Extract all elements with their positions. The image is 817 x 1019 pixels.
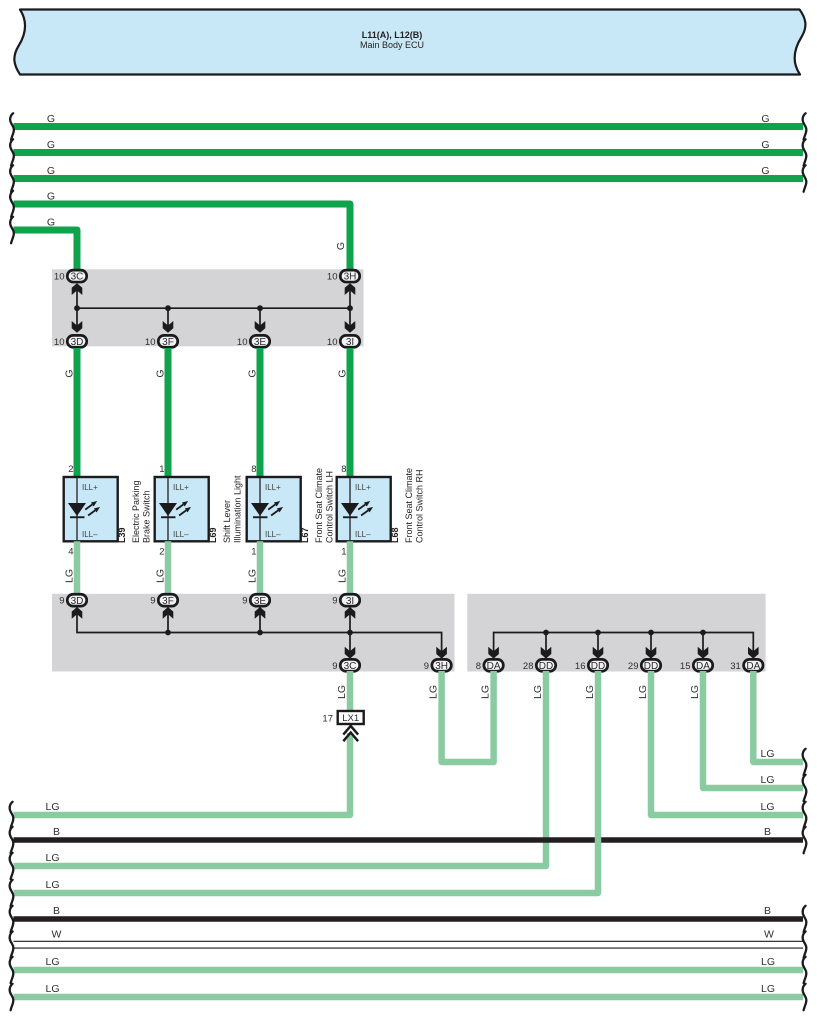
svg-text:Front Seat Climate: Front Seat Climate — [404, 468, 414, 543]
svg-text:1: 1 — [251, 547, 256, 558]
svg-text:L67: L67 — [300, 527, 310, 543]
svg-text:10: 10 — [54, 272, 65, 283]
svg-text:10: 10 — [145, 337, 156, 348]
svg-text:W: W — [764, 929, 774, 941]
svg-text:1: 1 — [341, 547, 346, 558]
svg-text:LG: LG — [761, 983, 775, 995]
svg-text:10: 10 — [327, 272, 338, 283]
svg-text:ILL–: ILL– — [265, 530, 281, 539]
svg-text:1: 1 — [159, 464, 164, 475]
svg-text:9: 9 — [242, 596, 247, 607]
svg-text:LG: LG — [689, 685, 701, 699]
svg-text:DD: DD — [644, 661, 658, 672]
svg-text:9: 9 — [150, 596, 155, 607]
svg-text:DD: DD — [591, 661, 605, 672]
svg-text:8: 8 — [251, 464, 256, 475]
svg-text:17: 17 — [322, 713, 333, 724]
svg-text:15: 15 — [680, 661, 691, 672]
svg-text:LG: LG — [64, 569, 76, 583]
svg-text:10: 10 — [327, 337, 338, 348]
svg-text:Shift Lever: Shift Lever — [222, 500, 232, 543]
svg-text:9: 9 — [424, 661, 429, 672]
svg-text:Brake Switch: Brake Switch — [142, 490, 152, 543]
svg-text:G: G — [47, 139, 55, 151]
svg-text:3C: 3C — [71, 272, 84, 283]
svg-text:Control Switch LH: Control Switch LH — [325, 471, 335, 543]
svg-text:2: 2 — [159, 547, 164, 558]
svg-text:LG: LG — [337, 569, 349, 583]
svg-text:LG: LG — [761, 748, 775, 760]
svg-text:LG: LG — [46, 956, 60, 968]
svg-text:LG: LG — [155, 569, 167, 583]
svg-text:29: 29 — [628, 661, 639, 672]
svg-text:Main Body ECU: Main Body ECU — [360, 40, 424, 50]
svg-text:L39: L39 — [117, 527, 127, 543]
svg-text:3D: 3D — [71, 596, 84, 607]
svg-text:ILL+: ILL+ — [355, 483, 371, 492]
svg-text:LG: LG — [761, 956, 775, 968]
svg-text:W: W — [52, 929, 62, 941]
svg-text:DA: DA — [487, 661, 501, 672]
svg-text:LG: LG — [46, 852, 60, 864]
svg-text:ILL–: ILL– — [173, 530, 189, 539]
svg-text:LG: LG — [584, 685, 596, 699]
svg-text:L69: L69 — [208, 527, 218, 543]
svg-text:ILL+: ILL+ — [265, 483, 281, 492]
svg-text:9: 9 — [332, 596, 337, 607]
svg-text:B: B — [764, 905, 771, 917]
svg-text:ILL+: ILL+ — [82, 483, 98, 492]
svg-text:G: G — [337, 369, 349, 377]
svg-text:LG: LG — [532, 685, 544, 699]
svg-text:G: G — [47, 113, 55, 125]
svg-text:LG: LG — [336, 685, 348, 699]
svg-text:Front Seat Climate: Front Seat Climate — [314, 468, 324, 543]
svg-text:8: 8 — [341, 464, 346, 475]
svg-text:LG: LG — [427, 685, 439, 699]
svg-text:ILL–: ILL– — [82, 530, 98, 539]
svg-text:DA: DA — [746, 661, 760, 672]
svg-text:3E: 3E — [254, 596, 267, 607]
svg-text:LG: LG — [761, 774, 775, 786]
svg-text:G: G — [761, 139, 769, 151]
svg-text:G: G — [47, 216, 55, 228]
svg-text:G: G — [761, 113, 769, 125]
svg-text:3C: 3C — [344, 661, 357, 672]
svg-text:B: B — [764, 826, 771, 838]
svg-text:LG: LG — [46, 801, 60, 813]
svg-text:2: 2 — [68, 464, 73, 475]
svg-text:3F: 3F — [162, 596, 174, 607]
svg-text:G: G — [155, 369, 167, 377]
svg-text:G: G — [47, 190, 55, 202]
svg-text:LX1: LX1 — [342, 713, 359, 724]
svg-text:LG: LG — [46, 879, 60, 891]
svg-text:31: 31 — [730, 661, 741, 672]
svg-text:10: 10 — [237, 337, 248, 348]
svg-text:L68: L68 — [390, 527, 400, 543]
svg-text:4: 4 — [68, 547, 73, 558]
svg-text:16: 16 — [575, 661, 586, 672]
svg-text:Illumination Light: Illumination Light — [233, 475, 243, 543]
svg-text:LG: LG — [761, 801, 775, 813]
svg-text:LG: LG — [637, 685, 649, 699]
svg-text:ILL–: ILL– — [355, 530, 371, 539]
svg-text:G: G — [335, 242, 347, 250]
svg-text:9: 9 — [59, 596, 64, 607]
svg-text:Control Switch RH: Control Switch RH — [415, 469, 425, 543]
svg-text:G: G — [64, 369, 76, 377]
svg-text:G: G — [761, 165, 769, 177]
svg-text:3I: 3I — [346, 337, 354, 348]
svg-text:DA: DA — [696, 661, 710, 672]
svg-text:10: 10 — [54, 337, 65, 348]
svg-text:3I: 3I — [346, 596, 354, 607]
svg-text:L11(A), L12(B): L11(A), L12(B) — [362, 30, 423, 40]
svg-text:Electric Parking: Electric Parking — [131, 480, 141, 543]
svg-text:LG: LG — [46, 983, 60, 995]
svg-text:G: G — [47, 165, 55, 177]
svg-text:B: B — [53, 826, 60, 838]
svg-text:8: 8 — [476, 661, 481, 672]
svg-text:LG: LG — [479, 685, 491, 699]
svg-text:3F: 3F — [162, 337, 174, 348]
svg-text:3D: 3D — [71, 337, 84, 348]
svg-text:B: B — [53, 905, 60, 917]
svg-text:3H: 3H — [435, 661, 448, 672]
svg-text:3E: 3E — [254, 337, 267, 348]
svg-text:G: G — [247, 369, 259, 377]
svg-text:28: 28 — [523, 661, 534, 672]
svg-text:LG: LG — [247, 569, 259, 583]
svg-text:DD: DD — [539, 661, 553, 672]
svg-text:ILL+: ILL+ — [173, 483, 189, 492]
svg-text:9: 9 — [332, 661, 337, 672]
svg-text:3H: 3H — [344, 272, 357, 283]
